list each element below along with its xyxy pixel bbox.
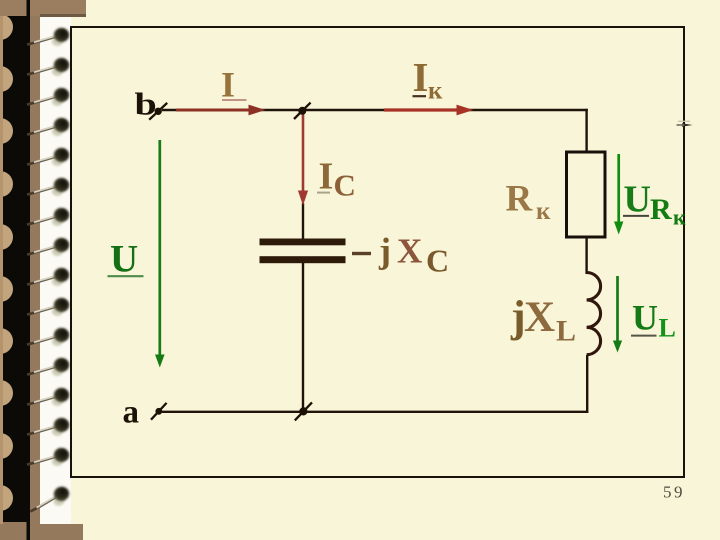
svg-text:X: X [524,294,555,341]
svg-text:к: к [673,205,686,230]
svg-text:R: R [506,179,534,220]
current arrow I on top wire [176,105,266,116]
wire: inductor to bottom corner [586,355,588,413]
svg-text:j: j [378,230,391,270]
binder pin 1 [27,28,69,46]
svg-text:I: I [221,65,235,105]
label URk (with underline) [623,179,686,230]
svg-text:U: U [624,179,651,221]
binder pin 12 [27,358,69,376]
svg-text:R: R [650,193,672,226]
wire: top horizontal b to right corner [162,109,588,111]
binder tan bump 5 [0,224,13,250]
wire: bottom horizontal [162,411,588,413]
svg-text:L: L [659,313,676,342]
binder tan bump 2 [0,66,13,92]
binder pin 11 [27,328,69,346]
slide border frame [71,27,684,477]
binder pin 4 [27,118,69,136]
node junction bottom (capacitor tap) [295,402,312,420]
label Ic (with underline) [317,155,356,202]
binder black strip [3,16,28,522]
svg-text:U: U [632,297,658,337]
binder left tan edge [0,0,3,540]
small tick on right border [677,121,693,127]
label jXL [510,292,576,347]
svg-text:U: U [110,238,138,281]
svg-text:к: к [428,78,443,105]
label Rk [506,179,552,225]
wire: right branch top (corner to resistor) [585,109,587,153]
binder pin 2 [27,58,69,76]
binder pin 15 [27,448,69,466]
voltage arrow U (left) [155,140,165,368]
binder bottom brown strip [0,524,83,540]
binder pin 13 [27,388,69,406]
binder pin 5 [27,148,69,166]
binder pin 6 [27,178,69,196]
capacitor -jXC top plate [260,239,346,246]
binder tan bump 1 [0,14,13,40]
label U (with underline) [108,238,144,281]
node junction top (capacitor tap) [294,103,311,119]
binder tan bump 3 [0,118,13,144]
voltage arrow UL [613,276,622,353]
binder tan bump 10 [0,485,13,511]
voltage arrow URk [614,154,623,235]
current arrow Ic on capacitor branch [298,113,308,206]
svg-text:I: I [413,54,429,100]
wire: capacitor branch lower segment [302,262,304,412]
inductor jXL coil (3 arcs) [587,273,601,355]
binder tan bump 9 [0,433,13,459]
node a terminal [151,403,167,420]
binder pin 14 [27,418,69,436]
svg-text:I: I [319,155,334,197]
binder pin 9 [27,268,69,286]
wire: capacitor branch upper black segment [302,203,304,239]
binder tan bump 8 [0,380,13,406]
binder tan bump 7 [0,328,13,354]
binder black spine line over strips [27,0,31,16]
binder pin 10 [27,298,69,316]
binder pin 7 [27,208,69,226]
binder tan bump 4 [0,171,13,197]
label UL (with underline) [631,297,676,342]
binder pin 8 [27,238,69,256]
label I (with underline) [221,65,247,105]
resistor Rk body [567,152,606,237]
capacitor -jXC bottom plate [260,256,346,263]
svg-text:C: C [334,167,356,202]
svg-text:b: b [135,86,157,121]
svg-text:L: L [556,315,576,348]
svg-text:к: к [536,198,551,225]
current arrow Ik on top wire [384,105,474,116]
svg-text:C: C [426,243,449,279]
svg-text:X: X [397,231,422,270]
binder white paper strip [40,14,71,526]
binder pin 16 [26,485,71,513]
binder brown base column [0,0,40,540]
binder top brown strip [0,0,86,16]
binder black spine line [27,0,31,540]
node b terminal [149,103,167,120]
binder tan bump 6 [0,276,13,302]
wire: resistor to inductor [585,237,587,274]
svg-text:a: a [123,394,140,430]
label Ik (with underline) [413,54,444,104]
label -jXC [352,230,449,278]
svg-text:59: 59 [663,483,685,502]
binder pin 3 [27,88,69,106]
